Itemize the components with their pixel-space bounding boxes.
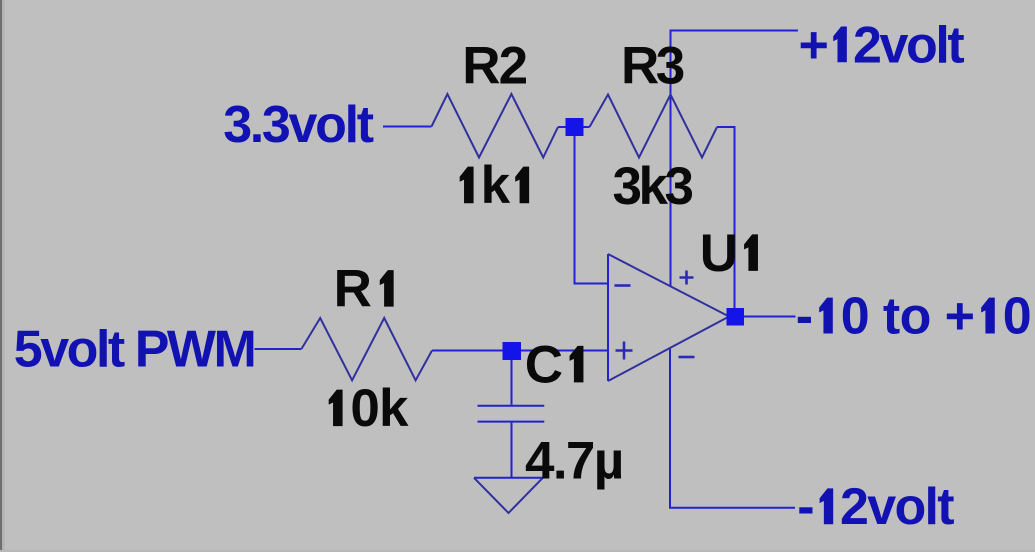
svg-text:3k3: 3k3: [613, 157, 693, 216]
svg-text:C: C: [525, 335, 563, 394]
svg-text:-: -: [796, 288, 813, 346]
svg-text:R2: R2: [462, 36, 526, 95]
svg-text:R: R: [334, 260, 373, 319]
svg-text:3.3volt: 3.3volt: [223, 96, 374, 154]
svg-text:k: k: [481, 156, 511, 215]
svg-text:+: +: [799, 16, 828, 74]
svg-text:0k: 0k: [350, 379, 409, 438]
svg-text:4.7µ: 4.7µ: [525, 432, 623, 491]
svg-text:R3: R3: [621, 36, 684, 95]
svg-text:5volt PWM: 5volt PWM: [14, 321, 255, 379]
svg-text:0 to +: 0 to +: [841, 288, 975, 346]
svg-text:0: 0: [1003, 288, 1031, 346]
svg-text:2volt: 2volt: [840, 478, 954, 536]
svg-text:U: U: [700, 224, 737, 283]
svg-text:2volt: 2volt: [853, 16, 964, 74]
svg-text:-: -: [797, 478, 813, 536]
